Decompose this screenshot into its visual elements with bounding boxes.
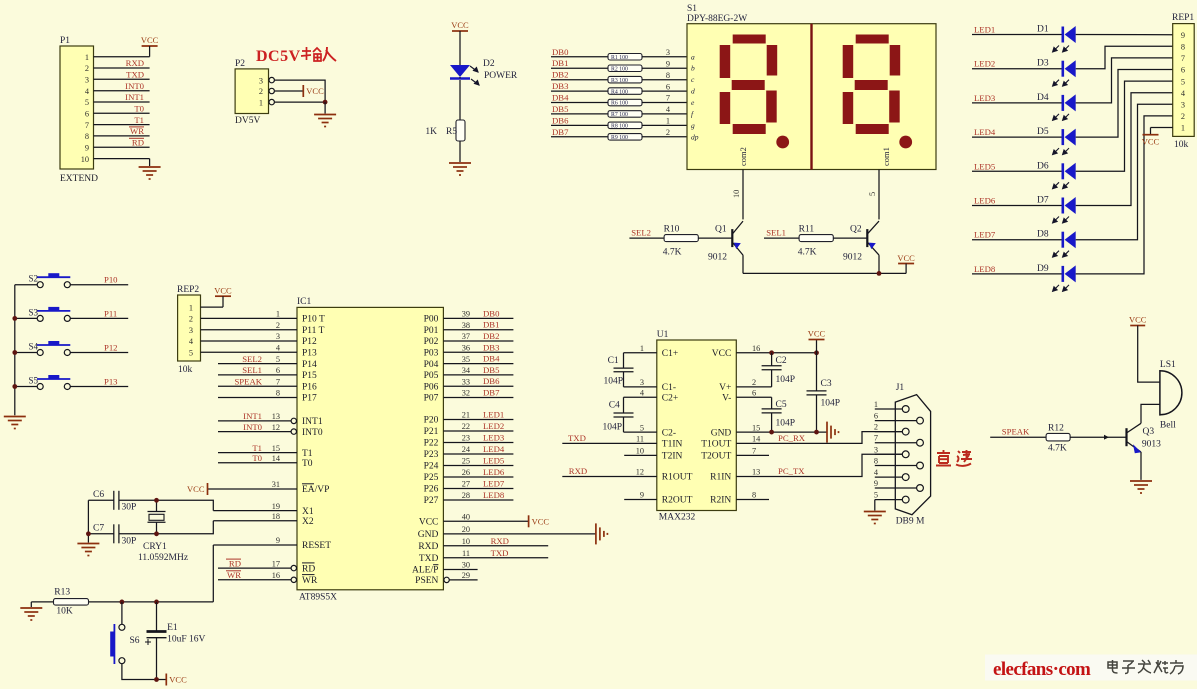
svg-text:1: 1 — [189, 303, 193, 312]
svg-text:R12: R12 — [1048, 424, 1064, 434]
IC1 pin 40 (VCC) wire — [443, 520, 528, 522]
svg-text:D7: D7 — [1037, 196, 1049, 206]
svg-text:LED4: LED4 — [483, 444, 505, 454]
wire LED8 to diode D9 — [972, 273, 1063, 275]
LED diode D6 — [1063, 163, 1076, 180]
electrolytic capacitor E1 10uF 16V — [145, 602, 167, 680]
VCC symbol at P1 pin 1 — [142, 45, 158, 47]
svg-text:LED2: LED2 — [483, 421, 504, 431]
wire LED6 to diode D7 — [972, 205, 1063, 207]
svg-text:D4: D4 — [1037, 93, 1049, 103]
svg-text:D6: D6 — [1037, 161, 1049, 171]
svg-text:VCC: VCC — [187, 484, 205, 494]
VCC power bar at P2 pin 2 — [302, 85, 304, 97]
svg-text:TXD: TXD — [568, 433, 586, 443]
svg-text:P16: P16 — [302, 382, 317, 392]
svg-text:5: 5 — [85, 98, 89, 107]
capacitor C2 104P — [771, 353, 773, 387]
svg-text:LED1: LED1 — [483, 410, 504, 420]
emission arrows of D5 — [1053, 148, 1069, 154]
wire DB5 to resistor R7 — [551, 113, 608, 115]
svg-text:VCC: VCC — [419, 518, 439, 528]
wire R9 to display pin 2 — [642, 136, 687, 138]
IC1 pin 17 inversion circle — [291, 565, 296, 570]
U1 pin8 stub — [736, 499, 769, 501]
svg-text:SPEAK: SPEAK — [234, 376, 262, 386]
svg-text:2: 2 — [276, 321, 280, 330]
svg-text:6: 6 — [1181, 66, 1185, 75]
capacitor C1 104P — [614, 367, 634, 369]
7-seg digit segments (com2) — [720, 35, 789, 149]
wire U1 pin4/pin5 loop with C4 — [624, 396, 657, 398]
svg-text:g: g — [691, 121, 695, 130]
svg-text:VCC: VCC — [141, 35, 159, 45]
svg-text:1: 1 — [85, 53, 89, 62]
wire LED2 to diode D3 — [972, 68, 1063, 70]
resistor R10 4.7K — [664, 235, 698, 242]
resistor R1 100 — [608, 54, 642, 61]
svg-text:8: 8 — [666, 71, 670, 80]
svg-text:2: 2 — [666, 128, 670, 137]
wire REP2 pin1 to VCC — [201, 306, 224, 308]
wire S5 to net P13 — [70, 386, 128, 388]
svg-text:7: 7 — [85, 121, 89, 130]
P1 pin 1 wire — [94, 56, 150, 58]
IC1 pin 27 (P26) wire — [443, 488, 513, 490]
junction E1 bottom — [154, 677, 159, 682]
wire rail to S2 — [15, 284, 37, 286]
svg-text:9: 9 — [640, 491, 644, 500]
junction C3 top — [814, 350, 819, 355]
svg-text:P1: P1 — [60, 36, 70, 46]
svg-text:TXD: TXD — [419, 554, 439, 564]
svg-text:LED6: LED6 — [483, 467, 505, 477]
wire Q3 emitter to ground — [1140, 452, 1142, 480]
svg-text:1: 1 — [666, 117, 670, 126]
svg-text:RXD: RXD — [418, 542, 438, 552]
svg-text:R6 100: R6 100 — [611, 101, 628, 107]
svg-text:VCC: VCC — [451, 20, 469, 30]
svg-text:C4: C4 — [609, 401, 620, 411]
junction left rail — [86, 531, 91, 536]
svg-text:dp: dp — [691, 132, 699, 141]
overline over P of ALE/P — [433, 564, 438, 566]
svg-text:3: 3 — [276, 332, 280, 341]
wire R6 to display pin 7 — [642, 102, 687, 104]
svg-text:P17: P17 — [302, 394, 317, 404]
svg-text:PC_RX: PC_RX — [778, 433, 806, 443]
svg-text:ALE/P: ALE/P — [412, 566, 438, 576]
capacitor C3 104P — [816, 353, 818, 432]
wire SPEAK to R12 — [990, 436, 1046, 438]
svg-text:com2: com2 — [738, 147, 748, 166]
wire SEL2 to R10 — [629, 237, 664, 239]
svg-text:P12: P12 — [104, 343, 118, 353]
svg-text:104P: 104P — [776, 419, 796, 429]
svg-text:S2: S2 — [28, 274, 38, 284]
svg-text:GND: GND — [418, 530, 439, 540]
svg-text:DB4: DB4 — [483, 354, 500, 364]
push button S6 (vertical) — [110, 624, 125, 664]
svg-text:GND: GND — [711, 428, 732, 438]
svg-text:10: 10 — [81, 155, 89, 164]
ground at J1 pin5 — [864, 512, 886, 524]
speaker LS1 Bell — [1160, 370, 1182, 416]
LED D2 emission arrows — [466, 62, 479, 85]
wire junction down to ground — [324, 102, 326, 113]
svg-text:T1IN: T1IN — [662, 440, 683, 450]
junction on rail at S3 — [12, 316, 17, 321]
svg-text:VCC: VCC — [169, 675, 187, 685]
junction node at P2 — [323, 100, 328, 105]
svg-text:a: a — [691, 52, 695, 61]
svg-text:T1: T1 — [134, 115, 144, 125]
svg-text:S6: S6 — [130, 636, 140, 646]
IC1 pin 34 (P05) wire — [443, 374, 513, 376]
VCC bar at IC1 pin 40 — [528, 515, 530, 527]
svg-text:10k: 10k — [1174, 140, 1189, 150]
wire R10 to Q1 base — [698, 237, 732, 239]
svg-text:E1: E1 — [167, 623, 178, 633]
svg-text:P25: P25 — [424, 473, 439, 483]
IC1 pin 4 (P13) wire — [201, 351, 298, 353]
svg-text:D1: D1 — [1037, 25, 1049, 35]
resistor R13 10K — [54, 599, 89, 606]
svg-text:3: 3 — [874, 445, 878, 454]
svg-text:TXD: TXD — [491, 548, 509, 558]
svg-text:RESET: RESET — [302, 541, 331, 551]
svg-text:RD: RD — [302, 564, 315, 574]
svg-text:7: 7 — [874, 434, 878, 443]
svg-text:DB5: DB5 — [483, 365, 499, 375]
svg-text:Bell: Bell — [1160, 421, 1176, 431]
svg-text:30P: 30P — [122, 503, 137, 513]
VCC above power LED — [452, 30, 468, 32]
svg-text:26: 26 — [462, 468, 470, 477]
connector J1 DB9 outline — [895, 395, 930, 515]
IC1 pin 11 (TXD) wire — [443, 557, 548, 559]
svg-text:14: 14 — [752, 435, 761, 444]
svg-text:17: 17 — [272, 559, 280, 568]
IC1 pin 18 (X2) wire — [213, 520, 297, 522]
IC1 pin 12 inversion circle — [291, 429, 296, 434]
P2 pin 2 circle — [269, 88, 274, 93]
svg-text:MAX232: MAX232 — [659, 513, 696, 523]
VCC below REP1 pin1 — [1150, 128, 1152, 135]
svg-text:2: 2 — [1181, 112, 1185, 121]
svg-text:32: 32 — [462, 389, 470, 398]
svg-text:6: 6 — [874, 412, 878, 421]
resistor R8 100 — [608, 122, 642, 129]
svg-text:R1IN: R1IN — [710, 473, 731, 483]
MCU IC1 AT89S5X body — [297, 307, 443, 589]
svg-text:CRY1: CRY1 — [143, 542, 167, 552]
IC1 pin 10 (RXD) wire — [443, 545, 548, 547]
svg-text:DB7: DB7 — [483, 388, 500, 398]
svg-text:C1-: C1- — [662, 383, 676, 393]
svg-text:DB5: DB5 — [552, 104, 568, 114]
svg-text:T1: T1 — [302, 449, 313, 459]
svg-text:DB4: DB4 — [552, 93, 569, 103]
svg-text:P11: P11 — [104, 308, 117, 318]
wire D5 to REP1 pin 6 — [1076, 70, 1173, 138]
svg-text:DC5V: DC5V — [256, 48, 301, 65]
svg-text:LED5: LED5 — [483, 456, 504, 466]
svg-text:16: 16 — [752, 344, 760, 353]
svg-text:PC_TX: PC_TX — [778, 466, 805, 476]
svg-text:104P: 104P — [603, 377, 623, 387]
svg-text:S5: S5 — [28, 376, 38, 386]
wire VCC to bell top — [1138, 326, 1160, 383]
svg-text:LED4: LED4 — [974, 127, 996, 137]
svg-text:R2OUT: R2OUT — [662, 496, 693, 506]
wire R2 to display pin 9 — [642, 67, 687, 69]
svg-text:LED8: LED8 — [483, 490, 505, 500]
wire R8 to display pin 1 — [642, 124, 687, 126]
svg-text:DPY-88EG-2W: DPY-88EG-2W — [687, 14, 747, 24]
transistor Q1 9012 (PNP) — [732, 221, 743, 255]
emitter rail Q1-Q2 to VCC — [743, 272, 906, 274]
svg-text:11: 11 — [462, 549, 470, 558]
svg-text:LS1: LS1 — [1160, 360, 1176, 370]
IC1 pin 12 (INT0) wire — [218, 431, 291, 433]
svg-text:VCC: VCC — [897, 253, 915, 263]
svg-text:DB3: DB3 — [552, 81, 568, 91]
junction crystal top — [154, 498, 159, 503]
svg-text:P02: P02 — [424, 337, 439, 347]
svg-text:IC1: IC1 — [297, 297, 312, 307]
svg-text:5: 5 — [868, 192, 877, 196]
J1 pin 8 — [875, 465, 917, 467]
svg-text:elecfans·com: elecfans·com — [993, 659, 1091, 680]
svg-text:P13: P13 — [104, 377, 118, 387]
svg-text:D2: D2 — [483, 59, 495, 69]
wire R3 to display pin 8 — [642, 79, 687, 81]
svg-text:4.7K: 4.7K — [1048, 444, 1067, 454]
display com1 pin wire down — [878, 170, 880, 220]
svg-text:S4: S4 — [28, 342, 38, 352]
P1 pin 9 wire — [94, 146, 150, 148]
P1 pin 3 wire — [94, 78, 150, 80]
IC1 pin 17 (RD) wire — [218, 567, 291, 569]
wire D8 to REP1 pin 3 — [1076, 104, 1173, 239]
IC1 pin 20 (GND) wire — [443, 533, 596, 535]
svg-text:16: 16 — [272, 571, 280, 580]
wire S2 to net P10 — [70, 284, 128, 286]
svg-text:POWER: POWER — [484, 71, 518, 81]
IC1 pin 16 inversion circle — [291, 577, 296, 582]
svg-text:20: 20 — [462, 525, 470, 534]
wire R13 to ground — [31, 601, 53, 603]
IC1 pin 35 (P04) wire — [443, 363, 513, 365]
svg-text:P23: P23 — [424, 450, 439, 460]
resistor R7 100 — [608, 111, 642, 118]
U1 pin10 stub — [624, 454, 657, 456]
svg-text:5: 5 — [1181, 77, 1185, 86]
svg-text:LED6: LED6 — [974, 196, 996, 206]
svg-text:DB2: DB2 — [483, 331, 499, 341]
LED diode D5 — [1063, 129, 1076, 146]
wire R12 to Q3 base — [1070, 436, 1126, 438]
svg-text:RXD: RXD — [491, 536, 509, 546]
capacitor C6 30P — [113, 491, 115, 510]
svg-text:R10: R10 — [664, 224, 680, 234]
svg-text:4.7K: 4.7K — [663, 248, 682, 258]
J1 pin 2 — [875, 431, 903, 433]
wire Q2 emitter down to rail — [878, 255, 880, 273]
IC1 pin 1 (P10 T) wire — [201, 317, 298, 319]
wire J1 pin5 to ground — [874, 500, 876, 511]
svg-text:5: 5 — [276, 355, 280, 364]
svg-text:12: 12 — [636, 468, 644, 477]
IC1 pin 16 (WR) wire — [218, 579, 291, 581]
VCC above U1 — [816, 340, 818, 353]
svg-text:3: 3 — [1181, 101, 1185, 110]
LED D2 POWER (diode down) — [450, 65, 470, 79]
svg-text:S1: S1 — [687, 4, 697, 14]
svg-text:2: 2 — [189, 315, 193, 324]
wire D7 to REP1 pin 4 — [1076, 93, 1173, 206]
svg-text:28: 28 — [462, 491, 470, 500]
emission arrows of D9 — [1053, 285, 1069, 291]
svg-text:INT0: INT0 — [302, 428, 323, 438]
display S1 DPY-88EG-2W body — [687, 24, 936, 170]
wire U1 T1OUT to DB9 pin2 — [736, 432, 902, 444]
wire R11 to Q2 base — [833, 237, 867, 239]
wire D2 to R5 — [459, 80, 461, 120]
ground (rotated) at U1 GND — [827, 422, 839, 443]
logo hanzi dian-zi-fa-shao-you stroke art — [1108, 660, 1183, 674]
wire RESET net vertical — [212, 545, 214, 602]
junction on rail at S4 — [12, 350, 17, 355]
svg-text:1: 1 — [259, 98, 263, 107]
svg-text:P06: P06 — [424, 382, 439, 392]
svg-text:INT1: INT1 — [302, 417, 323, 427]
ground below Q3 — [1130, 481, 1152, 493]
svg-text:1: 1 — [874, 400, 878, 409]
wire D4 to REP1 pin 7 — [1076, 58, 1173, 103]
svg-text:3: 3 — [85, 76, 89, 85]
J1 pin 6 — [875, 420, 917, 422]
P1 pin 10 wire — [94, 158, 150, 160]
svg-text:U1: U1 — [657, 330, 669, 340]
svg-text:2: 2 — [85, 64, 89, 73]
svg-text:104P: 104P — [821, 399, 841, 409]
wire R7 to display pin 4 — [642, 113, 687, 115]
crystal CRY1 — [148, 500, 166, 534]
svg-text:C1: C1 — [608, 356, 619, 366]
J1 pin 4 — [875, 476, 903, 478]
svg-text:33: 33 — [462, 377, 470, 386]
LED diode D7 — [1063, 197, 1076, 214]
resistor R12 4.7K — [1046, 433, 1070, 441]
resistor pack REP2 — [178, 295, 201, 361]
svg-text:T2IN: T2IN — [662, 452, 683, 462]
IC1 pin 37 (P02) wire — [443, 340, 513, 342]
resistor R6 100 — [608, 99, 642, 106]
hanzi ru (enter) stroke art — [323, 47, 336, 61]
wire D9 to REP1 pin 2 — [1076, 116, 1173, 274]
svg-text:X2: X2 — [302, 517, 314, 527]
push button S4 — [37, 341, 70, 356]
svg-text:LED2: LED2 — [974, 59, 995, 69]
wire DB4 to resistor R6 — [551, 102, 608, 104]
emission arrows of D6 — [1053, 182, 1069, 188]
svg-text:EA/VP: EA/VP — [302, 485, 329, 495]
capacitor C4 104P — [614, 412, 634, 414]
svg-text:DB6: DB6 — [483, 376, 500, 386]
resistor R3 100 — [608, 76, 642, 83]
svg-text:SEL2: SEL2 — [631, 228, 651, 238]
wire REP1 pin1 to VCC — [1151, 127, 1173, 129]
wire P1 pin10 to ground — [149, 159, 151, 166]
svg-text:10k: 10k — [178, 365, 193, 375]
svg-text:S3: S3 — [28, 307, 38, 317]
svg-text:9012: 9012 — [708, 253, 727, 263]
svg-text:P24: P24 — [424, 462, 439, 472]
capacitor C7 30P — [113, 524, 115, 543]
svg-text:9012: 9012 — [843, 253, 862, 263]
svg-text:T0: T0 — [302, 459, 313, 469]
wire LED1 to diode D1 — [972, 34, 1063, 36]
svg-text:SEL1: SEL1 — [766, 228, 786, 238]
svg-text:LED3: LED3 — [483, 433, 504, 443]
IC1 pin 31 (EA/VP) wire — [208, 488, 298, 490]
svg-text:WR: WR — [302, 576, 318, 586]
wire bell bottom to Q3 collector — [1141, 404, 1160, 423]
emission arrows of D3 — [1053, 80, 1069, 86]
svg-text:24: 24 — [462, 445, 471, 454]
svg-text:C3: C3 — [821, 379, 832, 389]
svg-text:18: 18 — [272, 512, 280, 521]
svg-text:P15: P15 — [302, 371, 317, 381]
svg-text:9: 9 — [276, 536, 280, 545]
wire DB2 to resistor R3 — [551, 79, 608, 81]
J1 pin 5 — [875, 499, 903, 501]
svg-text:DB1: DB1 — [552, 58, 568, 68]
IC1 pin 39 (P00) wire — [443, 317, 513, 319]
junction reset-S6 — [120, 600, 125, 605]
svg-text:T1OUT: T1OUT — [701, 440, 731, 450]
svg-text:6: 6 — [276, 366, 280, 375]
J1 pin 1 — [875, 408, 903, 410]
svg-text:T0: T0 — [252, 453, 262, 463]
IC1 pin 13 (INT1) wire — [218, 420, 291, 422]
svg-text:4.7K: 4.7K — [798, 248, 817, 258]
svg-text:35: 35 — [462, 355, 470, 364]
resistor R11 4.7K — [799, 235, 833, 242]
P1 pin 8 wire — [94, 135, 150, 137]
svg-text:R2IN: R2IN — [710, 496, 731, 506]
wire LED3 to diode D4 — [972, 102, 1063, 104]
svg-text:P11 T: P11 T — [302, 326, 325, 336]
svg-text:b: b — [691, 64, 695, 73]
svg-text:T2OUT: T2OUT — [701, 452, 731, 462]
LED diode D1 — [1063, 26, 1076, 43]
wire to S6 top — [121, 602, 123, 624]
svg-text:J1: J1 — [896, 383, 905, 393]
svg-text:10: 10 — [462, 537, 470, 546]
P1 pin 5 wire — [94, 101, 150, 103]
svg-text:31: 31 — [272, 480, 280, 489]
emission arrows of D1 — [1053, 46, 1069, 52]
svg-text:R7 100: R7 100 — [611, 112, 628, 118]
IC1 pin 24 (P23) wire — [443, 453, 513, 455]
svg-text:P05: P05 — [424, 371, 439, 381]
svg-text:INT0: INT0 — [125, 81, 144, 91]
svg-text:R1OUT: R1OUT — [662, 473, 693, 483]
hanzi lian (connect) stroke art — [956, 450, 972, 466]
